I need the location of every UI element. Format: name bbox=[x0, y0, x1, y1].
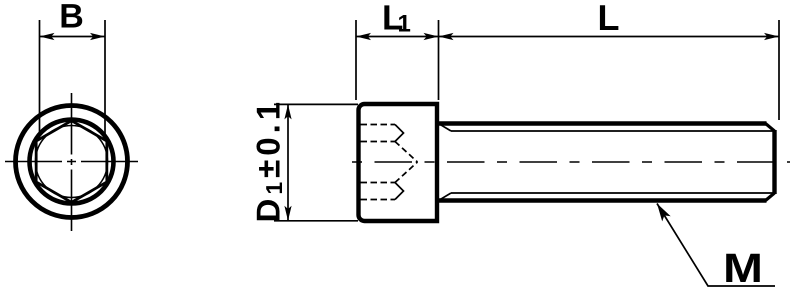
svg-text:L: L bbox=[598, 0, 620, 38]
svg-text:B: B bbox=[59, 0, 84, 36]
svg-text:D1±0.1: D1±0.1 bbox=[250, 102, 288, 223]
svg-text:M: M bbox=[723, 245, 763, 291]
svg-text:1: 1 bbox=[398, 11, 411, 38]
